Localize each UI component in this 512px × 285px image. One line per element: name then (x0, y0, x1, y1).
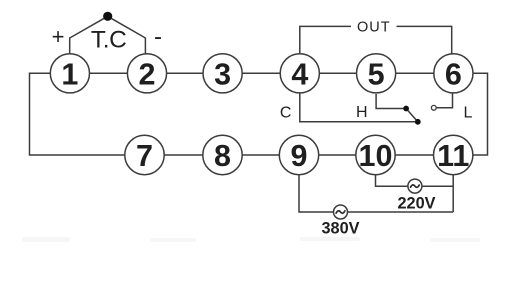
switch contact open circle L (431, 105, 436, 110)
terminal 10 (356, 135, 395, 174)
svg-text:-: - (154, 24, 162, 51)
svg-text:+: + (52, 24, 65, 49)
thermocouple junction dot (103, 12, 112, 21)
svg-text:H: H (356, 104, 368, 121)
terminal 9 (279, 135, 318, 174)
wire OUT bracket right (397, 26, 452, 53)
wire terminal9 to 380V source (299, 175, 334, 212)
wire terminal11 vertical drop (452, 175, 454, 212)
terminal 7 (125, 135, 164, 174)
switch arm (406, 109, 418, 122)
wire 9-10 (319, 154, 356, 156)
wire left loop terminal1-terminal7 (30, 73, 125, 155)
wire H from terminal5 (376, 94, 403, 109)
wire 380V source to terminal11 drop (347, 211, 453, 213)
terminal 5 (357, 54, 396, 93)
wire 4-5 (320, 72, 357, 74)
svg-text:3: 3 (214, 57, 231, 91)
wire 7-8 (164, 154, 203, 156)
wire terminal10 to 220V source (376, 175, 409, 186)
svg-text:C: C (280, 105, 292, 122)
wire 5-6 (396, 72, 434, 74)
wire right loop terminal6-terminal11 (473, 73, 488, 155)
faint watermark smudges (22, 237, 480, 242)
terminal 2 (127, 54, 166, 93)
svg-text:11: 11 (437, 139, 469, 173)
wire L to terminal6 (437, 93, 453, 108)
wire 3-4 (242, 72, 280, 74)
wire OUT bracket left (300, 26, 351, 54)
terminal 3 (203, 54, 242, 93)
wire 1-2 (90, 72, 128, 74)
svg-text:1: 1 (61, 57, 78, 91)
wire 10-11 (395, 154, 433, 156)
svg-text:2: 2 (139, 57, 156, 91)
wire thermocouple right lead (108, 16, 146, 54)
AC source 220V (408, 179, 422, 193)
svg-text:380V: 380V (321, 220, 359, 238)
switch contact dot H (403, 106, 409, 112)
svg-text:OUT: OUT (357, 19, 391, 35)
svg-text:9: 9 (291, 139, 308, 173)
terminal 6 (434, 54, 473, 93)
wire thermocouple left lead (70, 16, 108, 54)
wire 220V source to terminal11 drop (422, 185, 453, 187)
svg-text:6: 6 (445, 57, 462, 91)
switch pole dot C (415, 119, 421, 125)
svg-text:10: 10 (359, 139, 393, 173)
svg-text:5: 5 (368, 57, 385, 91)
svg-text:T.C: T.C (91, 27, 127, 54)
wire C from terminal4 (300, 93, 416, 122)
AC source 380V (334, 205, 348, 219)
terminal 1 (50, 54, 89, 93)
svg-text:L: L (464, 104, 473, 121)
terminal 4 (280, 54, 319, 93)
svg-text:8: 8 (214, 139, 231, 173)
wire 2-3 (167, 72, 203, 74)
terminal 11 (434, 135, 473, 174)
terminal 8 (203, 135, 242, 174)
wire 8-9 (242, 154, 279, 156)
svg-text:7: 7 (136, 139, 153, 173)
svg-text:4: 4 (291, 57, 308, 91)
svg-text:220V: 220V (397, 195, 435, 213)
